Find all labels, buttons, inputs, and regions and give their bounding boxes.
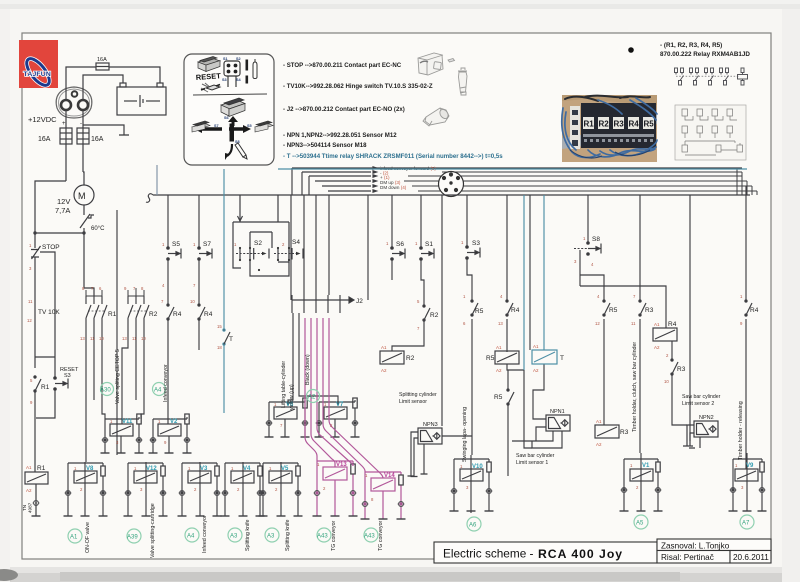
svg-text:Infeed conveyor: Infeed conveyor <box>163 364 169 402</box>
svg-text:R2: R2 <box>149 311 158 318</box>
svg-text:Infeed conveyor: Infeed conveyor <box>202 515 208 553</box>
svg-text:R3: R3 <box>645 307 654 314</box>
svg-text:S4: S4 <box>292 239 300 246</box>
svg-text:- T -->503944 Ttime relay SHR: - T -->503944 Ttime relay SHRACK ZRSMF01… <box>283 153 503 160</box>
svg-text:Valve spliting CETOP 5: Valve spliting CETOP 5 <box>115 349 121 404</box>
svg-text:S7: S7 <box>214 124 219 128</box>
svg-text:A4: A4 <box>154 388 162 394</box>
svg-text:10: 10 <box>141 336 146 341</box>
svg-text:S2: S2 <box>236 57 241 61</box>
svg-text:A43: A43 <box>317 534 328 540</box>
svg-text:Valve splitting-cartridge: Valve splitting-cartridge <box>150 503 156 558</box>
svg-text:RESET: RESET <box>196 71 222 82</box>
svg-text:yellow (up): yellow (up) <box>289 384 295 410</box>
svg-text:R4: R4 <box>204 311 213 318</box>
svg-text:16A: 16A <box>91 136 104 143</box>
svg-text:S3: S3 <box>64 373 71 379</box>
svg-text:A4: A4 <box>187 534 195 540</box>
svg-text:STOP: STOP <box>42 244 60 251</box>
svg-text:A2: A2 <box>308 395 316 401</box>
svg-text:S3: S3 <box>222 78 227 82</box>
svg-text:R3: R3 <box>620 429 629 436</box>
svg-text:Saw bar cylinder: Saw bar cylinder <box>516 453 555 459</box>
svg-text:13: 13 <box>122 336 127 341</box>
svg-text:60°C: 60°C <box>91 226 105 232</box>
svg-text:V8: V8 <box>86 466 94 472</box>
svg-text:R1: R1 <box>108 311 117 318</box>
svg-text:V2: V2 <box>170 419 178 425</box>
svg-text:NPN3: NPN3 <box>423 422 438 428</box>
svg-text:S2: S2 <box>254 240 262 247</box>
svg-text:A2: A2 <box>596 442 602 447</box>
svg-text:R4: R4 <box>629 120 640 129</box>
svg-text:R2: R2 <box>430 312 439 319</box>
svg-text:12: 12 <box>595 321 600 326</box>
svg-text:A39: A39 <box>127 535 138 541</box>
svg-text:+: + <box>62 121 66 127</box>
svg-text:ON-OF valve: ON-OF valve <box>85 522 91 553</box>
svg-text:V14: V14 <box>384 473 395 479</box>
svg-text:A1: A1 <box>26 465 32 470</box>
svg-text:Splitting cylinder: Splitting cylinder <box>399 392 437 398</box>
svg-text:V13: V13 <box>336 462 347 468</box>
svg-text:A2: A2 <box>381 368 387 373</box>
svg-text:Lifting table-cylinder: Lifting table-cylinder <box>281 361 287 408</box>
svg-text:- J2 -->870.00.212 Contact par: - J2 -->870.00.212 Contact part EC-NO (2… <box>283 106 405 113</box>
svg-text:A7: A7 <box>742 521 750 527</box>
svg-text:A5: A5 <box>636 521 644 527</box>
svg-text:R1: R1 <box>37 465 46 472</box>
svg-text:10: 10 <box>664 379 669 384</box>
svg-text:S3: S3 <box>472 240 480 247</box>
svg-text:Splitting knife: Splitting knife <box>245 519 251 551</box>
svg-text:- (R1, R2, R3, R4, R5): - (R1, R2, R3, R4, R5) <box>660 42 722 49</box>
svg-text:TV 10K: TV 10K <box>38 309 60 316</box>
svg-text:R5: R5 <box>494 394 503 401</box>
svg-text:R1: R1 <box>584 120 595 129</box>
svg-text:RCA 400 Joy: RCA 400 Joy <box>538 547 623 561</box>
svg-text:TAJFUN: TAJFUN <box>24 71 52 78</box>
svg-text:R1: R1 <box>41 384 50 391</box>
svg-text:S5: S5 <box>172 241 180 248</box>
svg-text:TN: TN <box>22 505 27 511</box>
svg-text:S6: S6 <box>396 241 404 248</box>
svg-text:A2: A2 <box>533 368 539 373</box>
svg-text:V10: V10 <box>472 464 483 470</box>
svg-text:S6: S6 <box>224 116 229 120</box>
svg-text:R5: R5 <box>486 355 495 362</box>
svg-text:TG conveyor: TG conveyor <box>331 520 337 551</box>
svg-text:T: T <box>560 355 564 362</box>
svg-text:R4: R4 <box>668 321 677 328</box>
svg-text:R5: R5 <box>609 307 618 314</box>
svg-text:+12VDC: +12VDC <box>28 115 57 124</box>
svg-text:A2: A2 <box>26 488 32 493</box>
svg-text:A3: A3 <box>230 534 238 540</box>
svg-text:20.6.2011: 20.6.2011 <box>733 553 769 562</box>
svg-text:- TV10K-->992.28.062 Hinge swi: - TV10K-->992.28.062 Hinge switch TV.10.… <box>283 83 433 90</box>
svg-text:Swinging lapa- opening: Swinging lapa- opening <box>462 407 468 462</box>
svg-text:S1: S1 <box>223 57 228 61</box>
svg-text:12: 12 <box>27 318 32 323</box>
svg-text:R4: R4 <box>173 311 182 318</box>
svg-text:A1: A1 <box>596 419 602 424</box>
svg-text:11: 11 <box>90 336 95 341</box>
svg-text:R5: R5 <box>475 308 484 315</box>
svg-text:15: 15 <box>217 324 222 329</box>
svg-text:R4: R4 <box>750 307 759 314</box>
svg-text:V12: V12 <box>146 466 157 472</box>
svg-text:- STOP -->870.00.211 Contact p: - STOP -->870.00.211 Contact part EC-NC <box>283 62 402 69</box>
svg-text:A1: A1 <box>654 322 660 327</box>
svg-text:Timber holder - releasing: Timber holder - releasing <box>738 401 744 460</box>
svg-text:S8: S8 <box>592 236 600 243</box>
svg-text:A1: A1 <box>533 344 539 349</box>
svg-text:A43: A43 <box>364 534 375 540</box>
svg-text:V3: V3 <box>200 466 208 472</box>
svg-text:R2: R2 <box>599 120 610 129</box>
svg-text:V9: V9 <box>746 463 754 469</box>
svg-text:NPN1: NPN1 <box>550 409 565 415</box>
svg-text:12V: 12V <box>57 197 70 206</box>
svg-text:Electric scheme -: Electric scheme - <box>443 547 534 561</box>
svg-text:A1: A1 <box>381 345 387 350</box>
svg-text:R5: R5 <box>644 120 655 129</box>
svg-text:7,7A: 7,7A <box>55 206 70 215</box>
svg-text:Limit sensor 2: Limit sensor 2 <box>682 401 714 407</box>
svg-text:A6: A6 <box>469 523 477 529</box>
svg-text:V5: V5 <box>281 466 289 472</box>
svg-text:11: 11 <box>132 336 137 341</box>
svg-text:18: 18 <box>217 345 222 350</box>
svg-text:S1: S1 <box>425 241 433 248</box>
svg-text:V1: V1 <box>642 463 650 469</box>
svg-text:A1: A1 <box>496 345 502 350</box>
svg-text:A30: A30 <box>100 388 111 394</box>
svg-text:- NPN3-->504114 Sensor M18: - NPN3-->504114 Sensor M18 <box>283 142 367 149</box>
svg-text:16A: 16A <box>38 136 51 143</box>
svg-text:Splitting knife: Splitting knife <box>285 519 291 551</box>
svg-text:Zasnoval: L.Tonjko: Zasnoval: L.Tonjko <box>661 542 730 551</box>
svg-text:R2: R2 <box>406 355 415 362</box>
svg-text:4987: 4987 <box>28 502 33 513</box>
svg-text:Limit sensor 1: Limit sensor 1 <box>516 460 548 466</box>
svg-text:10: 10 <box>99 336 104 341</box>
svg-text:11: 11 <box>631 321 636 326</box>
svg-text:A1: A1 <box>70 535 78 541</box>
svg-text:870.00.222 Relay RXM4AB1JD: 870.00.222 Relay RXM4AB1JD <box>660 51 750 58</box>
svg-text:V7: V7 <box>336 402 344 408</box>
svg-text:V4: V4 <box>243 466 251 472</box>
svg-text:13: 13 <box>80 336 85 341</box>
svg-text:Saw bar cylinder: Saw bar cylinder <box>682 394 721 400</box>
svg-text:DM down (4): DM down (4) <box>380 185 407 190</box>
svg-text:-: - <box>80 121 82 127</box>
svg-text:S5: S5 <box>247 124 252 128</box>
svg-text:- NPN 1,NPN2-->992.28.051 Sens: - NPN 1,NPN2-->992.28.051 Sensor M12 <box>283 132 397 139</box>
svg-text:Limit sensor: Limit sensor <box>399 399 427 405</box>
svg-text:16A: 16A <box>97 57 107 63</box>
svg-text:Risal: Pertinač: Risal: Pertinač <box>661 553 714 562</box>
svg-text:A2: A2 <box>496 368 502 373</box>
svg-text:10: 10 <box>190 299 195 304</box>
svg-text:NPN2: NPN2 <box>699 415 714 421</box>
svg-text:R3: R3 <box>614 120 625 129</box>
svg-text:V11: V11 <box>122 419 133 425</box>
svg-text:TG conveyor: TG conveyor <box>378 520 384 551</box>
svg-text:R4: R4 <box>511 307 520 314</box>
svg-text:13: 13 <box>498 321 503 326</box>
svg-text:J2: J2 <box>356 298 363 305</box>
svg-text:A3: A3 <box>267 534 275 540</box>
svg-text:A2: A2 <box>654 345 660 350</box>
svg-text:11: 11 <box>28 299 33 304</box>
svg-text:S7: S7 <box>203 241 211 248</box>
svg-text:R3: R3 <box>677 366 686 373</box>
svg-text:T: T <box>229 336 233 343</box>
svg-text:M: M <box>78 191 86 201</box>
svg-text:Black (down): Black (down) <box>305 354 311 385</box>
svg-text:Timber holdar, clutch, saw bar: Timber holdar, clutch, saw bar cylinder <box>632 342 638 432</box>
